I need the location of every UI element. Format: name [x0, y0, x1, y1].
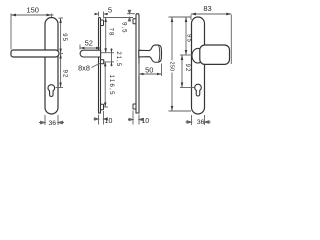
lever-side backplate, edge view: [99, 18, 101, 114]
dimension 9,5 arrows (outside): [128, 10, 130, 22]
svg-text:36: 36: [49, 120, 57, 127]
spindle axis extension line: [104, 61, 114, 63]
lever handle grip: [11, 50, 59, 57]
dimension 95 arrow bottom: [59, 49, 61, 54]
dimension 150 extension line left: [10, 14, 12, 50]
dimension 150 arrow right: [47, 14, 52, 17]
svg-text:150: 150: [26, 5, 39, 14]
svg-text:92: 92: [184, 64, 190, 73]
dimension 95 arrows (right group): [185, 17, 188, 55]
dimension 36 arrow right (outside): [58, 121, 64, 124]
dimension 5 extension lines: [99, 12, 104, 19]
svg-text:52: 52: [85, 39, 93, 48]
dimension 78 arrows: [104, 18, 107, 53]
backplate (lever set): [45, 18, 58, 115]
dimension 83 extension lines: [191, 15, 231, 64]
dimension 36 arrows (right group): [186, 121, 211, 124]
svg-text:50: 50: [145, 65, 153, 74]
dimension 116,5 arrows: [104, 62, 107, 107]
dimension 95 extension line bottom (handle axis): [60, 53, 63, 55]
svg-text:8x8: 8x8: [78, 64, 90, 73]
dimension 21,5 line: [111, 53, 113, 62]
dimension 83 arrows: [191, 13, 231, 16]
dimension 250 arrows: [171, 17, 174, 111]
dimension 92 arrow top: [59, 54, 61, 59]
plate bottom extension line (right group): [169, 110, 192, 112]
svg-text:250: 250: [168, 61, 174, 71]
knob plate bottom fixing boss: [133, 104, 136, 109]
svg-text:9,5: 9,5: [120, 22, 126, 33]
euro profile cylinder hole: [48, 85, 55, 97]
dimension 50 arrows: [139, 73, 162, 76]
dimension 52 extension line: [79, 45, 81, 50]
knob axis extension line (right group): [180, 54, 192, 56]
dimension 92 extension line bottom (cylinder axis): [56, 87, 64, 89]
dimension 95 line (right group): [185, 17, 187, 55]
svg-text:36: 36: [197, 119, 205, 126]
svg-text:21,5: 21,5: [115, 51, 121, 67]
svg-text:95: 95: [61, 33, 67, 42]
svg-text:83: 83: [203, 4, 211, 13]
knob head (front view): [200, 45, 230, 64]
dimension 95 line: [60, 18, 62, 54]
knob flare (front view): [192, 48, 204, 63]
dimension 150 extension line right (plate centre): [51, 14, 53, 18]
dimension 250 line: [171, 17, 173, 111]
knob, side profile: [139, 45, 162, 62]
dimension 95 extension line top: [59, 17, 64, 19]
plate top extension line (for 9,5 / 78): [104, 17, 133, 19]
dimension 83 line: [191, 13, 231, 15]
lever grip, edge view: [80, 50, 101, 57]
dimension 50 line: [139, 73, 162, 75]
svg-text:10: 10: [141, 118, 149, 125]
knob plate top fixing boss: [133, 19, 136, 24]
dimension 150 arrow left: [11, 14, 16, 17]
dimension 50 extension lines: [139, 64, 162, 77]
dimension 36 arrow left (outside): [39, 121, 45, 124]
svg-text:78: 78: [108, 28, 114, 37]
svg-text:116,5: 116,5: [108, 75, 114, 96]
svg-text:92: 92: [61, 70, 67, 79]
knob front edge line: [159, 45, 160, 62]
dimension 10 (knob plate) extension lines: [133, 111, 139, 125]
dimension 92 line: [60, 54, 62, 88]
knob-side backplate, edge view: [136, 14, 139, 113]
dimension 78 line: [105, 18, 107, 53]
dimension 10 (knob plate) arrows: [128, 118, 143, 120]
svg-text:5: 5: [108, 6, 112, 15]
lever plate top fixing boss: [101, 20, 104, 25]
dimension 52 arrows: [80, 47, 101, 50]
plate top extension line (right group): [169, 16, 192, 18]
dimension 92 arrows (right group): [181, 55, 184, 88]
dimension 92 arrow bottom: [59, 83, 61, 88]
dimension 36 extension lines (right group): [192, 115, 205, 125]
knob plate top extension line: [127, 13, 135, 15]
dimension 116,5 line: [104, 62, 106, 107]
dimension 8x8 leader: [92, 63, 101, 68]
lever plate bottom fixing boss: [101, 104, 104, 110]
dimension 5 line: [95, 13, 109, 15]
dimension 5 arrows (outside): [95, 13, 108, 15]
svg-text:95: 95: [186, 34, 192, 43]
dimension 95 arrow top: [59, 18, 61, 23]
spindle 8x8 stub: [101, 60, 104, 64]
svg-text:10: 10: [105, 118, 113, 125]
euro profile cylinder hole (knob plate): [195, 84, 202, 96]
handle axis extension line: [101, 52, 114, 54]
backplate (knob set): [192, 17, 205, 114]
cylinder axis extension line (right group): [180, 87, 195, 89]
dimension 52 line: [80, 47, 101, 49]
dimension 150 line: [11, 14, 54, 16]
dimension 21,5 arrows: [111, 48, 113, 66]
dimension 92 line (right group): [181, 55, 183, 88]
dimension 36 extension lines: [45, 115, 58, 125]
dimension 10 (lever plate) extension lines: [99, 111, 104, 125]
dimension 10 (lever plate) arrows: [94, 118, 108, 120]
bottom boss axis extension line: [104, 106, 108, 108]
